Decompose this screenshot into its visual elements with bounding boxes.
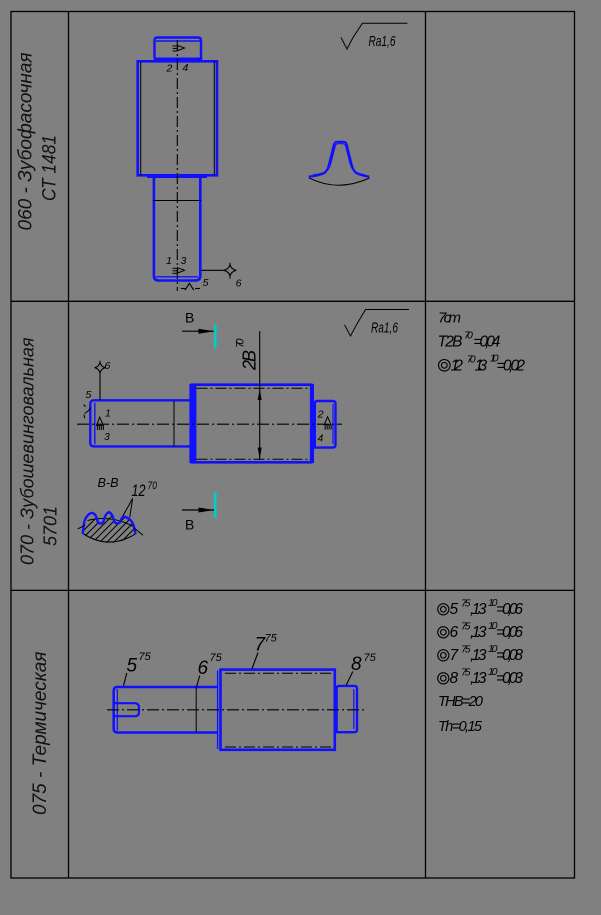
svg-text:70: 70	[148, 480, 158, 492]
svg-text:СТ 1481: СТ 1481	[40, 135, 61, 201]
svg-text:75: 75	[364, 652, 377, 664]
svg-text:75: 75	[210, 652, 223, 664]
svg-text:=0,06: =0,06	[496, 624, 523, 641]
svg-text:,13: ,13	[470, 624, 487, 641]
svg-text:1: 1	[166, 255, 172, 267]
svg-text:В: В	[185, 310, 194, 326]
svg-text:5: 5	[127, 656, 138, 677]
svg-text:3: 3	[104, 431, 110, 443]
svg-text:1: 1	[105, 408, 111, 420]
svg-text:В-В: В-В	[98, 475, 119, 490]
svg-text:=0,08: =0,08	[496, 647, 523, 664]
svg-text:7cm: 7cm	[438, 310, 461, 327]
svg-text:5: 5	[450, 601, 459, 618]
svg-text:=0,02: =0,02	[497, 358, 526, 375]
svg-text:6: 6	[450, 624, 459, 641]
svg-text:2: 2	[317, 409, 324, 421]
svg-text:75: 75	[265, 633, 278, 645]
svg-text:=0,06: =0,06	[496, 601, 523, 618]
svg-text:70: 70	[235, 338, 247, 348]
svg-text:3: 3	[181, 255, 187, 267]
svg-text:12: 12	[132, 482, 146, 500]
svg-text:2В: 2В	[240, 350, 260, 371]
svg-text:075 - Термическая: 075 - Термическая	[30, 652, 51, 815]
svg-text:13: 13	[475, 358, 488, 375]
svg-text:Т2В: Т2В	[438, 334, 463, 351]
svg-text:8: 8	[450, 670, 459, 687]
svg-text:=0,04: =0,04	[473, 334, 500, 351]
svg-text:6: 6	[105, 360, 111, 372]
svg-text:,13: ,13	[470, 601, 487, 618]
svg-text:75: 75	[139, 651, 152, 663]
svg-text:ТНВ=20: ТНВ=20	[438, 694, 483, 710]
svg-text:6: 6	[236, 278, 242, 290]
svg-text:12: 12	[451, 358, 464, 375]
svg-text:4: 4	[318, 433, 324, 445]
svg-text:5701: 5701	[41, 506, 61, 546]
svg-text:070 - Зубошевинговальная: 070 - Зубошевинговальная	[18, 337, 38, 565]
svg-text:7: 7	[450, 647, 460, 664]
svg-text:Ra1,6: Ra1,6	[369, 34, 397, 50]
svg-text:2: 2	[166, 63, 173, 75]
svg-text:060 - Зубофасочная: 060 - Зубофасочная	[15, 52, 36, 230]
svg-text:,13: ,13	[470, 670, 487, 687]
svg-text:В: В	[185, 517, 194, 533]
svg-text:=0,03: =0,03	[496, 670, 523, 687]
svg-text:Ra1,6: Ra1,6	[371, 321, 399, 337]
svg-text:4: 4	[183, 62, 189, 74]
svg-text:70: 70	[464, 330, 473, 342]
svg-text:5: 5	[86, 389, 92, 401]
svg-text:Тh=0,15: Тh=0,15	[438, 719, 483, 735]
svg-text:,13: ,13	[470, 647, 487, 664]
svg-text:5: 5	[203, 277, 209, 289]
